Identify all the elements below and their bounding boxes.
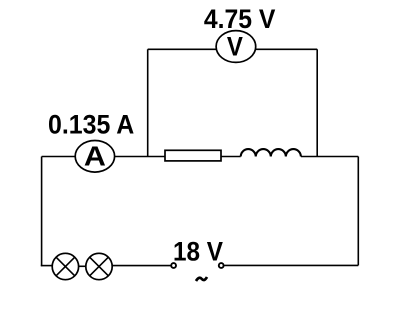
wire: bottom right segment — [224, 264, 358, 266]
svg-text:A: A — [84, 140, 106, 171]
lamp B1 cross stroke 1 — [56, 257, 75, 276]
wire: left vertical of voltmeter branch — [147, 49, 149, 156]
resistor R1 — [165, 150, 221, 161]
lamp B1 cross stroke 2 — [56, 257, 75, 276]
lamp B2 — [86, 253, 112, 279]
wire: top branch horizontal (voltmeter branch) — [148, 48, 318, 50]
AC source terminal right — [219, 263, 224, 268]
AC source terminal left — [171, 263, 176, 268]
wire: right vertical of voltmeter branch — [316, 49, 318, 156]
wire: main branch horizontal right segment — [301, 156, 358, 158]
svg-text:V: V — [227, 32, 243, 62]
lamp B2 cross stroke 1 — [89, 257, 108, 276]
AC source tilde symbol — [196, 277, 207, 281]
wire: bottom left segment (lamp to corner) — [41, 265, 53, 267]
svg-text:4.75 V: 4.75 V — [204, 4, 276, 34]
inductor L1 — [241, 149, 301, 156]
ammeter A1 — [75, 141, 114, 173]
svg-text:0.135 A: 0.135 A — [48, 109, 134, 139]
wire: right side vertical — [357, 157, 359, 266]
lamp B1 — [52, 253, 78, 279]
lamp B2 cross stroke 2 — [89, 257, 108, 276]
wire: bottom middle segment (left terminal to right lamp) — [111, 265, 171, 267]
wire: main branch horizontal left segment — [42, 156, 241, 158]
wire: between lamps — [78, 265, 87, 267]
voltmeter V1 — [216, 31, 256, 63]
svg-text:18 V: 18 V — [173, 237, 223, 267]
wire: left side vertical — [41, 157, 43, 267]
